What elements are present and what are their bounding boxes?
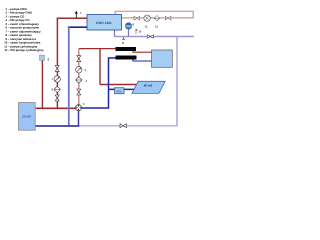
boiler 20 kW <box>19 103 36 131</box>
wire: CWU tank bottom stub <box>114 30 116 37</box>
wire: cold water bottom lavender horizontal <box>79 125 178 127</box>
svg-text:12 – filtr pompy cyrkulacyjnej: 12 – filtr pompy cyrkulacyjnej <box>4 48 43 52</box>
wire: 4-way valve bottom drop <box>78 111 80 127</box>
wire: vessel 9 stub <box>128 29 130 37</box>
expansion vessel 6 (square) <box>40 55 45 60</box>
svg-text:20 kW: 20 kW <box>22 115 31 119</box>
safety valve 10 <box>135 29 138 34</box>
svg-text:CWU 140L: CWU 140L <box>96 21 112 25</box>
wire: cold water horizontal under CWU tank <box>115 36 195 38</box>
pump 1 (CWU pump) <box>54 76 60 82</box>
wire: boiler return bottom navy <box>35 125 79 127</box>
valve V4 on CO riser <box>77 89 81 95</box>
circulation valve 1 (on loop) <box>134 16 140 20</box>
buffer box right <box>152 50 173 67</box>
wire: 4-way valve to right navy <box>81 58 116 108</box>
wire: purple long vertical <box>68 27 70 126</box>
svg-text:12: 12 <box>155 24 159 28</box>
valve V3 on CO riser <box>77 56 81 62</box>
wire: exchanger hot feed horizontal <box>79 48 116 50</box>
svg-text:11: 11 <box>145 24 148 28</box>
filter 4 (diamond) <box>76 77 82 83</box>
wire: expansion vessel 6 drop <box>41 61 43 109</box>
svg-text:10: 10 <box>138 29 142 33</box>
floor heating parallelogram 40 m2 <box>132 81 165 93</box>
valve on cold water line (top) <box>147 35 153 39</box>
CWU tank 140L <box>87 15 122 31</box>
pump 3 (CO pump) <box>76 67 82 73</box>
heat exchanger bar top <box>116 47 137 51</box>
svg-text:40 m2: 40 m2 <box>144 84 153 88</box>
wire: boiler CO supply horizontal (maroon) <box>35 107 76 109</box>
wire: floor return branch through RTL <box>109 88 135 90</box>
valve on cold water line (bottom) <box>120 124 126 128</box>
wire: exchanger navy out to box <box>133 59 152 61</box>
filter 2 (diamond) <box>54 86 60 92</box>
wire: hot supply to CWU tank top <box>57 17 87 19</box>
wire: floor heating supply drop <box>99 49 101 85</box>
wire: floor heating supply horizontal <box>100 84 137 86</box>
valve V2 on CWU riser <box>55 95 59 101</box>
wire: exchanger out to box (red) <box>133 51 152 53</box>
svg-text:RTL: RTL <box>117 89 123 93</box>
wire: CO pump riser (pink) <box>78 49 80 105</box>
wire: navy from tank to left corner <box>68 26 87 28</box>
circulation pump 11 <box>144 15 150 21</box>
RTL valve box <box>115 88 125 94</box>
circulation valve 2 (on loop) <box>165 16 171 20</box>
drain valve 8 (tee down) <box>122 37 125 39</box>
legend text block <box>4 7 43 52</box>
wire: CWU pump riser <box>56 18 58 108</box>
4-way mixing valve 5 <box>75 105 81 111</box>
expansion vessel 9 (circle) <box>125 23 131 29</box>
air vent valve 7 (arrow up) <box>75 11 78 18</box>
wire: cold water right vertical <box>176 37 178 127</box>
circulation filter 12 (diamond) <box>154 16 160 21</box>
valve V1 on CWU riser <box>55 65 59 71</box>
wire: circulation loop (salmon) CWU top to right and back <box>115 11 193 18</box>
heat exchanger bar bottom <box>116 56 137 60</box>
